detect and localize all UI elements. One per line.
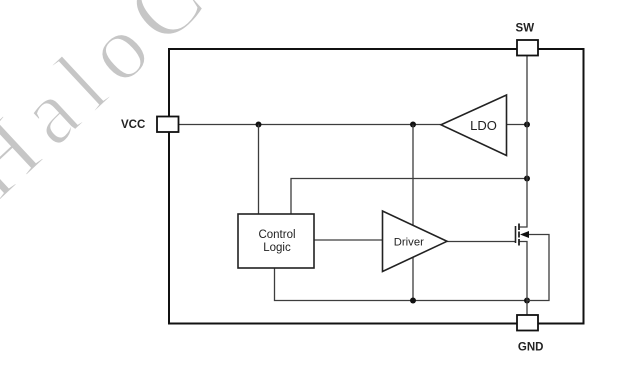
Control Logic block U1: [238, 214, 314, 268]
node: junction bottom rail / MOSFET source: [524, 298, 530, 304]
svg-text:Driver: Driver: [394, 236, 424, 248]
pin pad VCC: [157, 117, 179, 133]
channel segment body: [518, 232, 520, 238]
wire: LDO output to SW net: [507, 124, 528, 126]
node: junction VCC/driver branch: [410, 122, 416, 128]
node: junction bottom rail / driver branch: [410, 298, 416, 304]
pin pad SW: [517, 40, 538, 56]
wire: MOSFET body to source loop: [527, 235, 549, 301]
svg-text:LDO: LDO: [470, 118, 497, 133]
wire: Control Logic output to Driver input: [314, 239, 383, 241]
pin pad GND: [517, 315, 538, 331]
wire: MOSFET source to bottom rail node: [519, 242, 527, 301]
wire: Driver output to MOSFET gate: [447, 241, 516, 243]
wire: VCC junction down through Driver to bottom rail: [412, 125, 414, 301]
wire: VCC pad to LDO input (net VCC): [179, 124, 441, 126]
body arrow: [520, 231, 529, 238]
Driver buffer: [383, 211, 448, 272]
IC boundary box: [169, 49, 584, 324]
svg-text:Logic: Logic: [263, 242, 291, 254]
LDO regulator: [441, 95, 507, 156]
transistor Q1 (N-MOSFET): [516, 224, 530, 246]
channel segment drain: [518, 224, 520, 231]
wire: feedback rail y=178 from control-logic branch to SW net: [291, 179, 527, 215]
channel segment source: [518, 239, 520, 246]
svg-text:Control: Control: [258, 229, 295, 241]
node: junction feedback rail / SW vertical: [524, 176, 530, 182]
wire: SW pad down to MOSFET drain: [519, 56, 527, 228]
svg-text:VCC: VCC: [121, 119, 145, 131]
node: junction VCC/control-logic branch: [256, 122, 262, 128]
svg-text:GND: GND: [518, 341, 544, 353]
gate bar: [515, 226, 517, 243]
wire: Control Logic bottom pin down and along bottom rail to source node: [275, 268, 528, 301]
wire: GND node down to GND pad: [526, 301, 528, 316]
wire: VCC junction down to Control Logic top pin: [258, 125, 260, 215]
svg-text:SW: SW: [516, 23, 535, 35]
node: junction LDO output / SW vertical: [524, 122, 530, 128]
